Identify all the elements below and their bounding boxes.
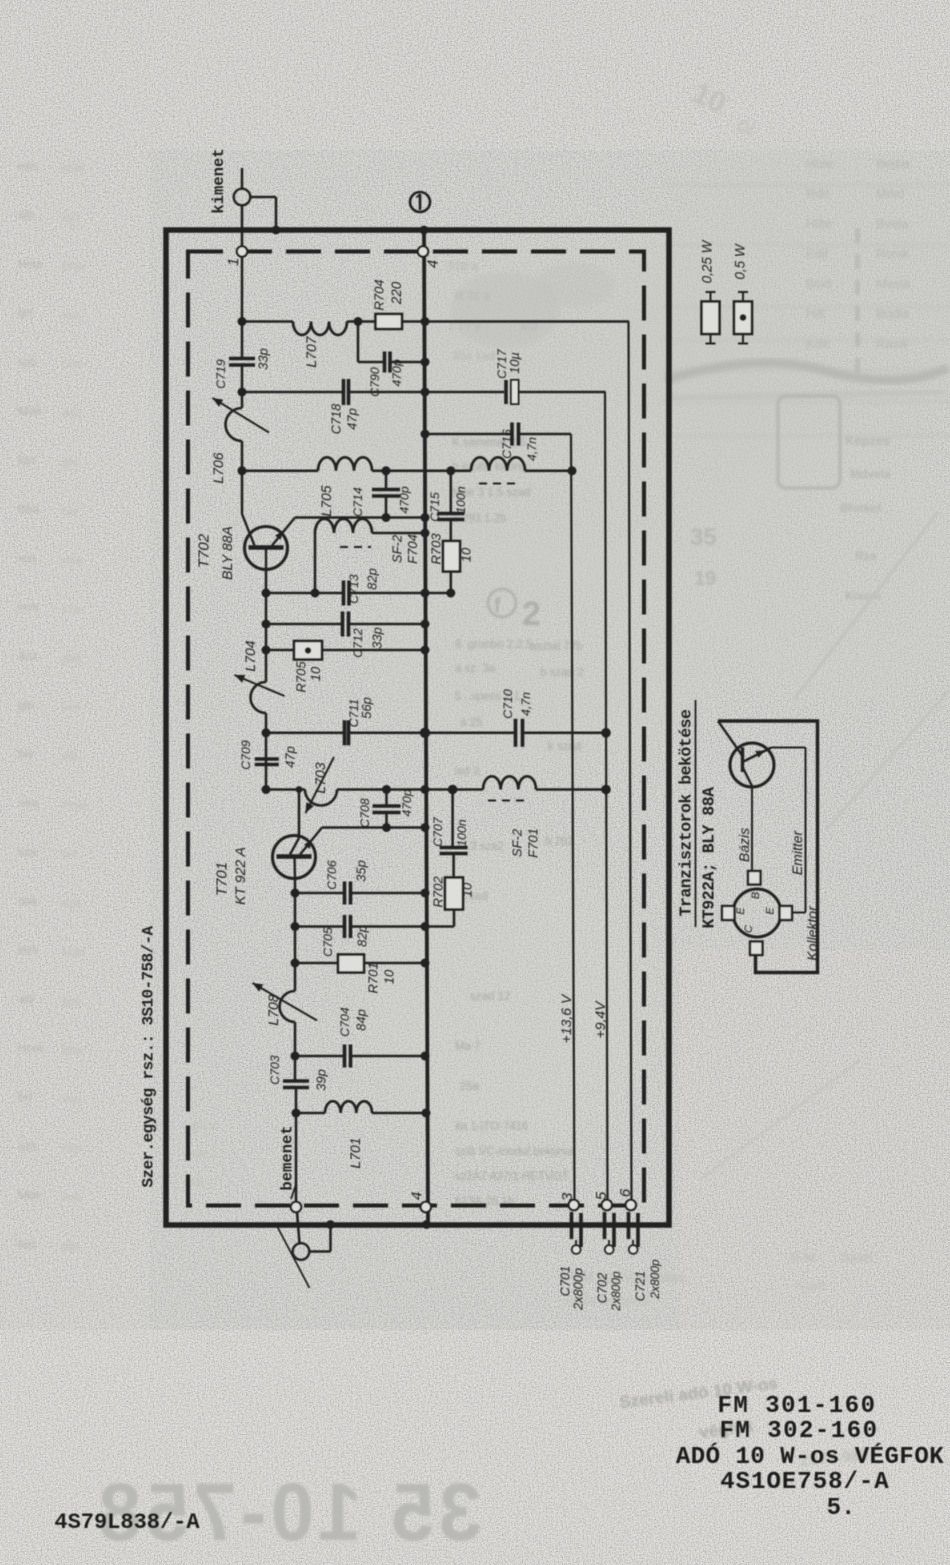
- svg-text:S-M: S-M: [790, 1249, 816, 1265]
- svg-text:C721: C721: [633, 1271, 648, 1302]
- svg-text:Bha: Bha: [18, 502, 40, 516]
- svg-text:33p: 33p: [256, 348, 271, 370]
- svg-text:C712: C712: [351, 628, 365, 658]
- svg-text:F701: F701: [526, 828, 541, 858]
- svg-text:0,25 W: 0,25 W: [700, 239, 715, 283]
- svg-text:FM 301-160: FM 301-160: [717, 1393, 876, 1420]
- svg-text:C703: C703: [268, 1055, 282, 1085]
- svg-text:brf: brf: [62, 847, 77, 861]
- svg-text:Hilte: Hilte: [806, 216, 832, 231]
- svg-text:eim: eim: [62, 700, 81, 714]
- svg-text:nrm: nrm: [62, 357, 83, 371]
- svg-text:Bedia: Bedia: [876, 156, 910, 171]
- svg-text:R704: R704: [372, 279, 387, 310]
- svg-text:C: C: [743, 925, 755, 933]
- svg-text:220: 220: [389, 281, 404, 305]
- svg-text:2x800p: 2x800p: [571, 1268, 586, 1311]
- svg-text:Mde: Mde: [18, 1188, 42, 1202]
- svg-text:KT 922 A: KT 922 A: [232, 847, 248, 905]
- svg-text:Hnia: Hnia: [18, 1041, 43, 1055]
- svg-text:E: E: [765, 907, 777, 915]
- svg-text:3: 3: [559, 1192, 576, 1201]
- svg-text:Bsid: Bsid: [806, 276, 831, 291]
- svg-text:kimenet: kimenet: [210, 148, 228, 213]
- svg-text:C707: C707: [431, 816, 445, 847]
- svg-text:dak: dak: [18, 894, 38, 908]
- svg-text:R705: R705: [294, 661, 309, 693]
- svg-text:eim: eim: [18, 159, 37, 173]
- svg-text:L703: L703: [312, 762, 328, 793]
- svg-text:gfe: gfe: [18, 698, 35, 712]
- svg-text:szb: szb: [62, 896, 81, 910]
- svg-text:518 a: 518 a: [448, 259, 478, 273]
- svg-text:alb: alb: [18, 208, 34, 222]
- svg-text:kpz: kpz: [18, 1237, 37, 1251]
- svg-text:alb: alb: [62, 749, 78, 763]
- svg-text:4: 4: [409, 1192, 426, 1200]
- svg-text:4: 4: [425, 260, 442, 268]
- svg-text:gfe: gfe: [62, 1239, 79, 1253]
- svg-text:Emitter: Emitter: [789, 829, 805, 875]
- svg-text:lsd 3: lsd 3: [455, 766, 479, 778]
- svg-text:eim: eim: [18, 943, 37, 957]
- svg-text:C710: C710: [501, 689, 515, 719]
- svg-text:Tranzisztorok bekötése: Tranzisztorok bekötése: [677, 709, 696, 916]
- svg-text:T701: T701: [214, 862, 231, 896]
- svg-text:brf: brf: [18, 1090, 33, 1104]
- svg-text:F704: F704: [405, 534, 420, 564]
- svg-text:szb: szb: [18, 355, 37, 369]
- svg-text:a sz. 3a: a sz. 3a: [455, 663, 496, 675]
- svg-text:R 31 a: R 31 a: [455, 289, 491, 303]
- svg-text:B: B: [750, 892, 762, 899]
- svg-text:R703: R703: [429, 533, 444, 565]
- svg-text:Sza6: Sza6: [795, 1278, 825, 1293]
- svg-text:L701: L701: [347, 1137, 363, 1168]
- svg-text:4,7n: 4,7n: [525, 437, 539, 461]
- svg-text:Hüte: Hüte: [806, 156, 833, 171]
- svg-text:ADÓ 10 W-os VÉGFOK: ADÓ 10 W-os VÉGFOK: [676, 1442, 944, 1471]
- svg-text:a 25: a 25: [460, 717, 482, 729]
- svg-text:84p: 84p: [354, 1009, 369, 1031]
- svg-text:b szad 2: b szad 2: [540, 667, 583, 679]
- svg-text:szib VC-modul bekurva: szib VC-modul bekurva: [455, 1146, 574, 1158]
- svg-text:L705: L705: [318, 485, 334, 516]
- svg-text:1: 1: [225, 258, 242, 266]
- svg-text:asztal 77b: asztal 77b: [530, 641, 582, 653]
- svg-text:Mnid: Mnid: [876, 186, 904, 201]
- svg-text:T702: T702: [196, 533, 213, 568]
- svg-text:K samenat 2.5: K samenat 2.5: [452, 437, 526, 449]
- svg-text:+13,6 V: +13,6 V: [558, 993, 574, 1043]
- svg-text:10: 10: [459, 547, 474, 562]
- svg-text:35: 35: [690, 524, 717, 551]
- svg-text:R702: R702: [431, 876, 446, 908]
- svg-text:Rza: Rza: [855, 549, 877, 563]
- svg-text:35p: 35p: [354, 860, 369, 882]
- svg-text:82p: 82p: [365, 568, 380, 590]
- svg-text:szb: szb: [18, 1139, 37, 1153]
- svg-text:Bha: Bha: [62, 1043, 84, 1057]
- svg-text:100n: 100n: [455, 819, 469, 847]
- svg-text:Bvela: Bvela: [876, 216, 909, 231]
- svg-text:SzaK: SzaK: [840, 1249, 874, 1265]
- svg-text:C716: C716: [500, 429, 514, 459]
- svg-text:C719: C719: [214, 359, 228, 389]
- svg-text:L707: L707: [303, 335, 319, 367]
- svg-text:25a: 25a: [460, 1081, 480, 1093]
- svg-text:Mde: Mde: [62, 945, 86, 959]
- svg-text:Kollektor: Kollektor: [804, 905, 820, 961]
- svg-text:Edif: Edif: [806, 246, 829, 261]
- svg-text:10: 10: [308, 666, 323, 681]
- svg-text:rma: rma: [62, 553, 83, 567]
- svg-text:0,5 W: 0,5 W: [733, 243, 748, 280]
- svg-text:35e 1ad: 35e 1ad: [452, 349, 495, 363]
- svg-text:rma: rma: [18, 796, 39, 810]
- svg-text:33p: 33p: [370, 627, 385, 649]
- svg-text:4S79L838/-A: 4S79L838/-A: [54, 1510, 200, 1535]
- svg-text:L704: L704: [242, 640, 258, 671]
- svg-text:Mde: Mde: [18, 404, 42, 418]
- svg-text:2x800p: 2x800p: [648, 1259, 662, 1300]
- svg-text:a 3b: a 3b: [182, 1177, 203, 1189]
- svg-text:kpz: kpz: [62, 210, 81, 224]
- svg-text:4S1OE758/-A: 4S1OE758/-A: [720, 1469, 889, 1496]
- svg-text:R701: R701: [366, 962, 381, 993]
- svg-text:sz2A7 427/1.HETVOT: sz2A7 427/1.HETVOT: [455, 1171, 569, 1183]
- svg-text:82p: 82p: [355, 925, 370, 947]
- svg-text:Mvsla: Mvsla: [876, 276, 911, 291]
- svg-text:10: 10: [460, 882, 475, 897]
- svg-text:nrm: nrm: [62, 1141, 83, 1155]
- svg-text:Bázis: Bázis: [736, 828, 752, 862]
- svg-text:Ronik: Ronik: [876, 246, 910, 261]
- svg-text:vus: vus: [62, 308, 81, 322]
- svg-text:+9,4V: +9,4V: [592, 1000, 608, 1039]
- svg-text:Ma 7: Ma 7: [455, 1041, 481, 1053]
- svg-text:C706: C706: [325, 860, 339, 890]
- svg-text:Bha: Bha: [62, 259, 84, 273]
- svg-text:k szad: k szad: [548, 741, 581, 753]
- svg-text:ble: ble: [62, 504, 78, 518]
- svg-text:56p: 56p: [359, 697, 374, 719]
- svg-text:6: 6: [617, 1188, 634, 1197]
- svg-text:47p: 47p: [345, 408, 360, 430]
- svg-text:Hnia: Hnia: [62, 798, 87, 812]
- svg-text:C704: C704: [338, 1007, 352, 1037]
- svg-text:47p: 47p: [283, 746, 298, 768]
- svg-text:L708: L708: [265, 994, 281, 1025]
- svg-text:3 sza2: 3 sza2: [470, 841, 504, 853]
- svg-text:vus: vus: [18, 551, 37, 565]
- svg-text:sza: sza: [18, 845, 37, 859]
- svg-text:Asz: Asz: [18, 649, 38, 663]
- svg-text:10µ: 10µ: [507, 352, 522, 374]
- svg-text:39p: 39p: [314, 1069, 329, 1091]
- svg-text:470p: 470p: [398, 486, 412, 514]
- svg-text:100n: 100n: [454, 486, 468, 514]
- svg-text:b 292: b 292: [545, 836, 574, 848]
- svg-text:sza: sza: [62, 602, 81, 616]
- svg-text:2: 2: [522, 595, 541, 633]
- svg-text:Szer.egység rsz.: 3S10-758/-A: Szer.egység rsz.: 3S10-758/-A: [140, 925, 158, 1187]
- svg-text:C715: C715: [428, 492, 442, 522]
- svg-text:4,7n: 4,7n: [519, 692, 533, 716]
- svg-text:C708: C708: [358, 798, 372, 828]
- svg-text:Mdvela: Mdvela: [850, 467, 891, 481]
- svg-text:Bfotket: Bfotket: [840, 501, 881, 515]
- svg-text:470p: 470p: [400, 789, 414, 817]
- svg-text:kpz: kpz: [62, 994, 81, 1008]
- svg-text:bemenet: bemenet: [279, 1125, 297, 1190]
- svg-text:Asz: Asz: [62, 406, 82, 420]
- svg-text:19: 19: [694, 568, 716, 590]
- svg-text:Hnia: Hnia: [18, 257, 43, 271]
- svg-text:szad 12: szad 12: [470, 991, 510, 1003]
- svg-text:Mde: Mde: [62, 161, 86, 175]
- svg-text:Rdit: Rdit: [806, 186, 830, 201]
- svg-text:C705: C705: [321, 927, 335, 957]
- svg-text:470p: 470p: [390, 359, 404, 387]
- svg-text:brf: brf: [18, 306, 33, 320]
- svg-text:C714: C714: [351, 487, 365, 517]
- svg-text:ble: ble: [18, 747, 34, 761]
- svg-text:8. gronbo 2.2.5: 8. gronbo 2.2.5: [455, 639, 532, 651]
- svg-text:ita 1-jTO-7416: ita 1-jTO-7416: [455, 1121, 528, 1133]
- svg-text:5.: 5.: [827, 1495, 856, 1522]
- svg-text:f: f: [494, 595, 501, 617]
- svg-text:alb: alb: [18, 992, 34, 1006]
- svg-text:5: 5: [593, 1191, 610, 1200]
- svg-text:L706: L706: [210, 452, 226, 483]
- svg-text:kpz: kpz: [18, 453, 37, 467]
- svg-text:dak: dak: [62, 651, 82, 665]
- svg-text:nrm: nrm: [18, 600, 39, 614]
- svg-text:C718: C718: [329, 403, 344, 434]
- svg-text:Asz: Asz: [62, 1190, 82, 1204]
- svg-text:KT922A; BLY 88A: KT922A; BLY 88A: [700, 787, 719, 929]
- svg-text:C702: C702: [595, 1273, 610, 1304]
- svg-text:Képzes: Képzes: [845, 433, 891, 448]
- svg-text:BLY 88A: BLY 88A: [219, 526, 235, 580]
- svg-text:C709: C709: [239, 740, 253, 770]
- svg-text:FM 302-160: FM 302-160: [719, 1418, 878, 1445]
- svg-text:gfe: gfe: [62, 455, 79, 469]
- svg-text:E: E: [735, 907, 747, 915]
- svg-text:2x800p: 2x800p: [609, 1271, 623, 1312]
- svg-text:SF-2: SF-2: [510, 828, 525, 857]
- svg-text:C790: C790: [368, 367, 382, 397]
- svg-text:SF-2: SF-2: [390, 534, 405, 563]
- svg-text:10: 10: [382, 969, 397, 984]
- svg-text:C713: C713: [347, 574, 361, 604]
- svg-text:vus: vus: [62, 1092, 81, 1106]
